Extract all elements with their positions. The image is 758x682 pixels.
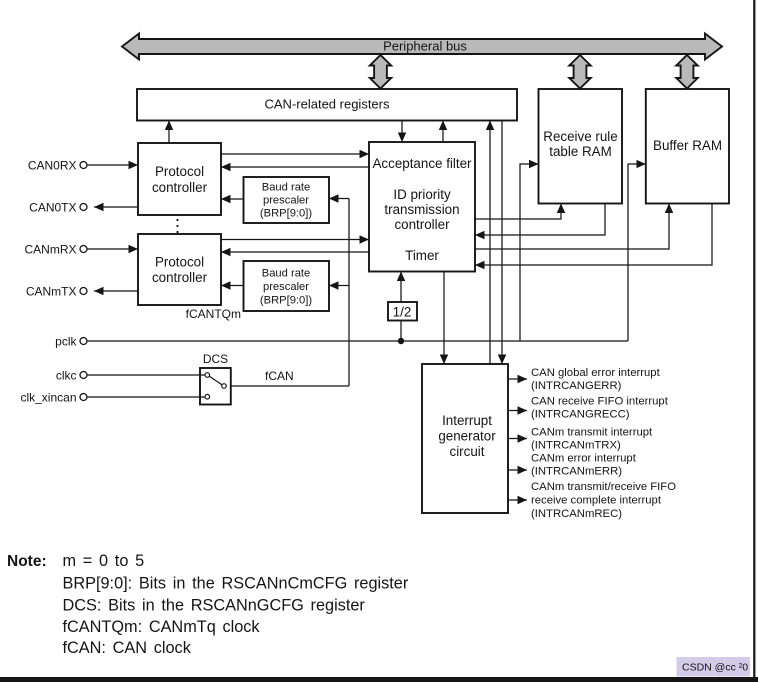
- wire pclk horizontal: [87, 340, 628, 342]
- svg-text:Protocol: Protocol: [155, 255, 204, 270]
- svg-text:Acceptance filter: Acceptance filter: [373, 156, 473, 171]
- note block: [7, 552, 409, 657]
- protocol controller 0 box: [138, 143, 221, 215]
- wire receive rule table RAM to acceptance filter: [475, 204, 605, 236]
- buffer RAM box: [646, 89, 729, 204]
- bottom border bar: [0, 677, 758, 682]
- svg-text:Protocol: Protocol: [155, 164, 204, 179]
- label CANm transmit/receive FIFO receive complete interrupt (INTRCANmREC): [531, 481, 676, 520]
- svg-text:controller: controller: [152, 180, 208, 195]
- port CANmTX: [26, 285, 87, 299]
- wire fCAN to baud rate prescaler m: [329, 285, 349, 287]
- baud rate prescaler m box: [244, 261, 330, 311]
- wire buffer RAM to acceptance filter: [475, 204, 712, 266]
- wire clk_xincan to DCS: [87, 396, 205, 398]
- svg-text:Receive rule: Receive rule: [543, 129, 617, 144]
- port clk_xincan: [20, 391, 87, 405]
- wire protocol controller 0 to acceptance filter: [221, 153, 369, 155]
- svg-text:CANm error interrupt: CANm error interrupt: [531, 453, 637, 465]
- wire acceptance filter to protocol controller m: [221, 251, 369, 253]
- svg-text:Interrupt: Interrupt: [442, 413, 492, 428]
- wire pclk to receive rule table RAM: [520, 164, 539, 341]
- CSDN watermark: [677, 657, 751, 677]
- svg-text:CAN global error interrupt: CAN global error interrupt: [531, 367, 661, 379]
- wire interrupt output INTRCANmERR: [508, 469, 527, 471]
- wire acceptance filter to interrupt generator: [443, 272, 445, 365]
- svg-text:fCAN: fCAN: [265, 369, 294, 383]
- protocol controller m box: [138, 234, 221, 305]
- svg-text:Note:: Note:: [7, 553, 47, 570]
- svg-text:table RAM: table RAM: [549, 144, 612, 159]
- wire interrupt output INTRCANGRECC: [508, 410, 527, 412]
- svg-text:CANm transmit interrupt: CANm transmit interrupt: [531, 426, 653, 438]
- svg-text:(BRP[9:0]): (BRP[9:0]): [260, 295, 312, 307]
- wire clkc to DCS: [87, 374, 205, 376]
- wire acceptance filter to receive rule table RAM: [475, 204, 561, 220]
- receive rule table RAM box: [539, 89, 623, 204]
- wire 1/2 divider to acceptance filter: [400, 272, 402, 303]
- svg-text:controller: controller: [394, 217, 450, 232]
- bus-to-registers double arrow: [370, 55, 391, 89]
- wire interrupt output INTRCANmTRX: [508, 438, 527, 440]
- svg-text:receive complete interrupt: receive complete interrupt: [531, 495, 662, 507]
- svg-text:Baud rate: Baud rate: [262, 182, 311, 194]
- svg-text:pclk: pclk: [55, 335, 77, 349]
- svg-text:CAN receive FIFO interrupt: CAN receive FIFO interrupt: [531, 396, 669, 408]
- wire protocol controller 0 to registers: [168, 121, 170, 144]
- svg-text:(BRP[9:0]): (BRP[9:0]): [260, 208, 312, 220]
- svg-text:(INTRCANmERR): (INTRCANmERR): [531, 466, 622, 478]
- wire pclk to buffer RAM: [628, 164, 646, 341]
- acceptance filter / ID priority transmission controller / timer box: [369, 142, 475, 272]
- junction pclk / 1-2 divider: [398, 338, 404, 344]
- ellipsis between protocol controllers: [176, 219, 178, 233]
- wire interrupt output INTRCANGERR: [508, 378, 527, 380]
- svg-text:CAN-related registers: CAN-related registers: [265, 96, 390, 111]
- svg-text:(INTRCANmREC): (INTRCANmREC): [531, 508, 622, 520]
- svg-text:fCANTQm: CANmTq clock: fCANTQm: CANmTq clock: [63, 618, 261, 636]
- svg-text:CSDN @cc ²0: CSDN @cc ²0: [682, 662, 748, 674]
- svg-text:CANmTX: CANmTX: [26, 285, 77, 299]
- svg-text:CANmRX: CANmRX: [24, 243, 76, 257]
- svg-text:Timer: Timer: [405, 248, 439, 263]
- wire interrupt output INTRCANmREC: [508, 499, 527, 501]
- wire CAN0RX to protocol controller 0: [87, 164, 138, 166]
- svg-text:prescaler: prescaler: [263, 281, 309, 293]
- DCS switch box: [200, 368, 231, 405]
- svg-text:ID priority: ID priority: [393, 187, 451, 202]
- svg-text:BRP[9:0]: Bits in the RSCANnCm: BRP[9:0]: Bits in the RSCANnCmCFG regist…: [63, 574, 409, 592]
- svg-text:1/2: 1/2: [393, 304, 412, 319]
- port CANmRX: [24, 243, 87, 257]
- port clkc: [56, 369, 87, 383]
- wire baud rate prescaler m to protocol controller m: [221, 285, 244, 287]
- svg-text:DCS: Bits in the RSCANnGCFG re: DCS: Bits in the RSCANnGCFG register: [63, 597, 366, 615]
- bus-to-receive-rule-RAM double arrow: [569, 55, 590, 89]
- svg-text:clk_xincan: clk_xincan: [20, 391, 76, 405]
- wire acceptance filter to buffer RAM: [475, 204, 669, 250]
- svg-text:(INTRCANGRECC): (INTRCANGRECC): [531, 409, 630, 421]
- label CAN global error interrupt (INTRCANGERR): [531, 367, 661, 392]
- svg-text:CAN0TX: CAN0TX: [29, 201, 76, 215]
- svg-text:generator: generator: [438, 428, 496, 443]
- svg-text:fCANTQm: fCANTQm: [186, 307, 241, 321]
- port CAN0RX: [28, 159, 87, 173]
- wire registers to acceptance filter: [401, 121, 403, 143]
- svg-text:(INTRCANmTRX): (INTRCANmTRX): [531, 439, 621, 451]
- svg-text:transmission: transmission: [384, 202, 459, 217]
- wire protocol controller 0 to CAN0TX: [94, 206, 138, 208]
- wire CANmRX to protocol controller m: [87, 248, 138, 250]
- wire acceptance filter to protocol controller 0: [221, 166, 369, 168]
- wire fCAN to baud rate prescaler 0: [329, 198, 349, 200]
- bus-to-buffer-RAM double arrow: [676, 55, 697, 89]
- wire acceptance filter to registers: [442, 121, 444, 143]
- right border: [753, 0, 755, 677]
- CAN-related registers box: [137, 89, 517, 121]
- svg-text:controller: controller: [152, 270, 208, 285]
- svg-text:CAN0RX: CAN0RX: [28, 159, 77, 173]
- peripheral bus: [122, 34, 722, 60]
- 1/2 divider box: [388, 302, 417, 321]
- wire baud rate prescaler 0 to protocol controller 0: [221, 198, 244, 200]
- wire protocol controller m to CANmTX: [94, 290, 138, 292]
- port pclk: [55, 335, 87, 349]
- svg-text:clkc: clkc: [56, 369, 77, 383]
- wire protocol controller m to acceptance filter: [221, 239, 369, 241]
- baud rate prescaler 0 box: [244, 177, 330, 223]
- svg-text:prescaler: prescaler: [263, 195, 309, 207]
- label CANm transmit interrupt (INTRCANmTRX): [531, 426, 653, 451]
- svg-text:Buffer RAM: Buffer RAM: [653, 138, 722, 153]
- wire pclk to 1/2 divider: [400, 321, 402, 342]
- svg-text:Baud rate: Baud rate: [262, 268, 311, 280]
- wire fCAN vertical riser: [348, 199, 350, 387]
- wire DCS output fCAN horizontal: [231, 385, 349, 387]
- svg-text:(INTRCANGERR): (INTRCANGERR): [531, 380, 622, 392]
- svg-text:Peripheral bus: Peripheral bus: [383, 39, 467, 54]
- wire interrupt generator to registers: [489, 121, 491, 365]
- port CAN0TX: [29, 201, 87, 215]
- svg-text:CANm transmit/receive FIFO: CANm transmit/receive FIFO: [531, 481, 676, 493]
- label CAN receive FIFO interrupt (INTRCANGRECC): [531, 396, 669, 421]
- label CANm error interrupt (INTRCANmERR): [531, 453, 637, 478]
- svg-text:DCS: DCS: [203, 352, 228, 366]
- svg-text:fCAN: CAN clock: fCAN: CAN clock: [63, 639, 192, 657]
- svg-text:circuit: circuit: [450, 444, 485, 459]
- svg-text:m = 0 to 5: m = 0 to 5: [63, 552, 145, 570]
- interrupt generator circuit box: [422, 364, 508, 513]
- wire registers to interrupt generator: [501, 121, 503, 365]
